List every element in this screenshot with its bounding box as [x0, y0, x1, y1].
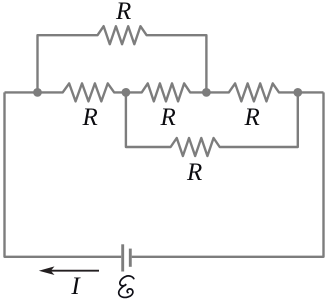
svg-text:R: R: [244, 104, 260, 131]
svg-text:R: R: [115, 0, 131, 25]
svg-text:R: R: [82, 104, 98, 131]
svg-text:I: I: [70, 273, 81, 300]
svg-text:R: R: [186, 159, 202, 186]
svg-text:R: R: [160, 104, 176, 131]
